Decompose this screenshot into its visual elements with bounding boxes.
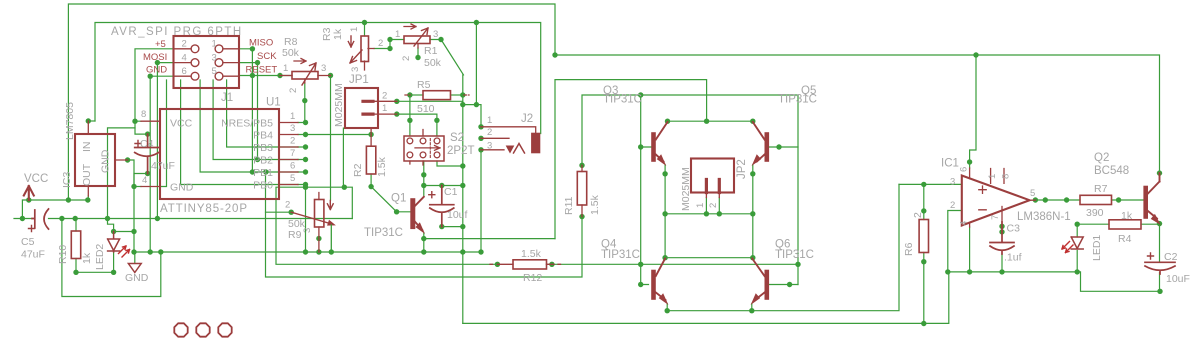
svg-text:2: 2: [487, 127, 492, 138]
wire IC1 pin6 supply jog: [970, 55, 976, 168]
wire IC1 pin3 input: [899, 183, 962, 185]
S2 arrow: [415, 146, 440, 151]
svg-text:3: 3: [212, 52, 217, 63]
wire R2 bottom lead: [370, 174, 372, 187]
wire J1 drop to PB0 row: [181, 80, 298, 185]
svg-text:Q1: Q1: [391, 193, 406, 205]
wire IC3 GND pin to node: [128, 160, 134, 187]
svg-text:RESET: RESET: [246, 65, 278, 76]
wire PB0 jog to R12 feed: [276, 187, 497, 264]
R1 wiper arrow: [414, 28, 428, 46]
led LED1: [1071, 237, 1083, 249]
S2 contact circles: [407, 138, 440, 158]
svg-text:PB3: PB3: [253, 142, 273, 154]
wire J1 +5 to U1 pin8: [135, 49, 174, 121]
wire J1 RESET to R8: [239, 75, 292, 77]
resistor R12: [513, 260, 547, 269]
transistor Q5: [764, 135, 769, 160]
svg-text:R2: R2: [352, 163, 364, 177]
U1 pin stubs: [141, 121, 298, 186]
LED1 arrows: [1062, 242, 1073, 253]
svg-text:VCC: VCC: [170, 118, 193, 130]
svg-text:3: 3: [350, 67, 361, 72]
wire E base drive right: [547, 263, 799, 265]
svg-text:M025MM: M025MM: [680, 167, 692, 211]
wire R4 right join: [1141, 223, 1160, 225]
wire green box around R9: [306, 128, 353, 218]
svg-text:BC548: BC548: [1094, 165, 1129, 177]
wire A hbridge top: [555, 80, 707, 239]
svg-text:4: 4: [182, 52, 187, 63]
svg-text:R12: R12: [523, 272, 542, 284]
resistor R4: [1109, 220, 1141, 229]
svg-text:1: 1: [382, 103, 387, 114]
svg-text:LED1: LED1: [1091, 235, 1103, 261]
C5 plus: [29, 226, 35, 232]
wire LED2 top jog: [108, 219, 135, 232]
svg-text:1.5k: 1.5k: [521, 248, 542, 260]
svg-text:2: 2: [401, 56, 412, 61]
svg-text:LM386N-1: LM386N-1: [1017, 211, 1071, 223]
switch S2 box: [404, 136, 444, 161]
svg-text:390: 390: [1086, 207, 1104, 219]
svg-text:8: 8: [1001, 174, 1012, 179]
resistor R7: [1080, 195, 1112, 204]
svg-text:510: 510: [417, 103, 435, 115]
wire R3 pin2 to R1: [374, 40, 404, 49]
svg-text:6: 6: [182, 66, 187, 77]
J1 pin lines: [174, 49, 240, 76]
wire J1 GND down: [150, 76, 173, 252]
wire F cross link: [665, 257, 753, 259]
transistor Q1: [410, 201, 415, 227]
svg-text:MISO: MISO: [249, 38, 273, 49]
svg-text:TIP31C: TIP31C: [775, 249, 814, 261]
svg-text:10uF: 10uF: [1166, 273, 1190, 285]
wire S2 mid bottom to Q1: [423, 161, 425, 175]
svg-text:3: 3: [302, 228, 313, 233]
led LED2: [108, 232, 120, 253]
wire B collectors top: [668, 120, 753, 122]
wire Q1 emitter down: [423, 233, 425, 253]
wire VCC branch down to rail: [108, 128, 136, 219]
wire PB3 to R11 bottom via y277: [266, 172, 583, 277]
wire Q5 emitter column: [752, 165, 754, 258]
C1 plus: [429, 192, 435, 198]
resistor R5: [423, 91, 451, 100]
wire GND symbol stem: [134, 252, 136, 263]
header JP2 box: [691, 159, 734, 193]
svg-text:JP1: JP1: [349, 74, 369, 86]
svg-text:6: 6: [290, 161, 295, 172]
wire R3 top to frame: [364, 23, 366, 37]
wire R5 left lead net: [411, 94, 423, 96]
capacitor C4: [135, 134, 159, 173]
connector J1 box: [174, 36, 240, 88]
wire JP1 pin2 to x463: [397, 100, 463, 102]
wire GND rail y252: [134, 251, 481, 253]
trimmer R3 body: [361, 36, 369, 62]
svg-text:J2: J2: [521, 113, 533, 125]
svg-text:4: 4: [142, 175, 147, 186]
wire PB4 to R3: [306, 134, 372, 136]
wire PB0 down to GND rail: [305, 185, 307, 253]
J1 pin circles: [191, 45, 223, 80]
R1 top arrow mark: [404, 24, 416, 29]
wire GND U-loop: [62, 219, 161, 297]
mounting holes: [174, 323, 187, 336]
wire frame2 top: [95, 23, 541, 134]
R9 down arrow: [327, 201, 333, 210]
svg-text:.1uf: .1uf: [1004, 252, 1022, 264]
svg-text:+5: +5: [155, 39, 166, 50]
wire C4 minus to GND node: [134, 174, 148, 187]
wire Q3 emitter column: [664, 165, 666, 258]
svg-text:2: 2: [288, 88, 299, 93]
wire R1 pin2 stub: [417, 48, 419, 58]
wire top frame VCC rail: [68, 4, 1159, 200]
resistor R11: [577, 172, 586, 206]
svg-text:4: 4: [959, 221, 970, 226]
svg-text:LM7805: LM7805: [64, 102, 76, 140]
wire C1 bottom jog: [442, 216, 463, 227]
wire rail1 y272: [948, 272, 1160, 291]
svg-text:47uF: 47uF: [21, 249, 45, 261]
wire rail H bottom: [463, 272, 949, 324]
transistor Q2: [1143, 188, 1148, 217]
wire J1 drop to U1 GND row: [160, 80, 167, 187]
wire S2 right bottom jog: [437, 161, 463, 166]
wire R8 pin3 down to R9: [330, 76, 332, 201]
svg-text:1: 1: [290, 111, 295, 122]
opamp IC1 triangle: [962, 176, 1030, 226]
wire base jogs right: [770, 147, 799, 285]
svg-text:1: 1: [212, 39, 217, 50]
ground symbol: [128, 264, 141, 273]
svg-text:3: 3: [433, 29, 438, 40]
IC1 pin7 stub: [1001, 207, 1003, 223]
svg-text:8: 8: [141, 109, 146, 120]
wire JP2 pin stubs: [706, 198, 719, 214]
svg-text:C5: C5: [21, 236, 35, 248]
JP1 pin bars: [363, 101, 373, 114]
R8 wiper arrow: [302, 63, 316, 85]
svg-text:R11: R11: [563, 196, 575, 215]
wire J2 pin1 jog: [463, 105, 481, 127]
wire R10 leads: [75, 219, 77, 273]
svg-text:R4: R4: [1118, 233, 1132, 245]
svg-text:GND: GND: [125, 272, 149, 284]
svg-text:7: 7: [990, 215, 1001, 220]
svg-text:PB1: PB1: [253, 167, 273, 179]
header JP1 box: [345, 88, 378, 128]
svg-text:2: 2: [950, 200, 955, 211]
svg-text:1.5k: 1.5k: [589, 194, 601, 215]
wire J1 MOSI down: [157, 63, 173, 219]
svg-text:1: 1: [695, 203, 706, 208]
transistor Q3: [651, 135, 656, 160]
wire VCC arrow stem: [28, 193, 30, 200]
wire S2 left top to R5: [409, 95, 411, 136]
svg-text:LED2: LED2: [94, 244, 106, 270]
wire IC1 pin5 out to R7: [1035, 199, 1080, 201]
svg-text:1: 1: [283, 63, 288, 74]
wire LED2 bottom y272: [76, 252, 114, 272]
wire J1 SCK to PB2: [239, 63, 258, 160]
svg-text:PB2: PB2: [253, 155, 273, 167]
svg-text:5: 5: [290, 173, 295, 184]
junction dots trimmer network: [362, 20, 367, 25]
svg-text:R9: R9: [288, 229, 302, 241]
svg-text:SCK: SCK: [257, 51, 277, 62]
wire Q4 emitter: [666, 304, 668, 311]
IC3 pins: [88, 121, 127, 196]
svg-text:TIP31C: TIP31C: [601, 249, 640, 261]
svg-text:2: 2: [290, 136, 295, 147]
svg-text:1: 1: [349, 27, 360, 32]
svg-text:2: 2: [285, 200, 290, 211]
junction dots H-bridge: [704, 119, 709, 124]
transistor Q4: [651, 272, 656, 298]
wire VCC to C4: [135, 121, 148, 134]
svg-text:C4: C4: [140, 138, 154, 150]
svg-text:GND: GND: [146, 65, 167, 76]
wire R5 right lead net: [451, 94, 463, 96]
wire R6 column: [923, 184, 925, 323]
svg-text:S2: S2: [450, 132, 464, 144]
wire x463 long vertical: [462, 75, 464, 324]
wire R1 pin3 diagonal: [430, 40, 464, 75]
svg-text:3: 3: [950, 177, 955, 188]
wire JP1 pin1 to S2: [397, 114, 437, 136]
wire base column left: [641, 95, 651, 285]
svg-text:IN: IN: [81, 142, 93, 153]
capacitor C1: [430, 186, 454, 227]
svg-text:R6: R6: [903, 242, 915, 256]
wire IC3 IN jog: [88, 120, 95, 122]
wire GND column x134: [133, 187, 135, 253]
wire C bases rail: [582, 95, 798, 285]
svg-text:ATTINY85-20P: ATTINY85-20P: [160, 203, 248, 215]
svg-text:50k: 50k: [424, 57, 442, 69]
R8 top arrow mark: [294, 59, 306, 64]
wire J1 drop to PB3 row: [227, 80, 298, 147]
svg-text:5: 5: [212, 66, 217, 77]
svg-text:TIP31C: TIP31C: [603, 94, 642, 106]
svg-text:7: 7: [290, 148, 295, 159]
svg-text:OUT: OUT: [81, 163, 93, 186]
svg-text:3: 3: [321, 63, 326, 74]
IC1 pins 1 8 stubs: [991, 169, 1004, 184]
svg-text:C2: C2: [1164, 251, 1178, 263]
svg-text:VCC: VCC: [24, 173, 48, 185]
svg-text:R5: R5: [417, 79, 431, 91]
wire R7 to Q2 base: [1112, 199, 1144, 201]
svg-text:3: 3: [487, 141, 492, 152]
R3 wiper arrow: [350, 50, 362, 63]
mcu U1 box: [160, 109, 279, 199]
resistor R2: [366, 146, 375, 174]
wire R4 left to LED1: [1077, 223, 1109, 225]
C2 plus: [1148, 253, 1154, 259]
JP2 pin bars: [706, 180, 719, 193]
wire y200 VCC node: [22, 196, 88, 219]
svg-text:6: 6: [959, 167, 970, 172]
svg-text:1.5k: 1.5k: [376, 156, 388, 177]
junction dots U1 pin column: [303, 120, 308, 125]
svg-text:GND: GND: [170, 182, 194, 194]
svg-text:1: 1: [487, 115, 492, 126]
svg-text:2: 2: [382, 91, 387, 102]
wire Q6 emitter: [751, 304, 753, 311]
svg-text:47uF: 47uF: [151, 160, 175, 172]
R3 down arrow: [348, 36, 353, 47]
wire IC1 pin2 down: [948, 211, 962, 272]
S2 pin stubs: [410, 130, 423, 166]
wire J1 drop to PB2 row: [213, 80, 298, 160]
svg-text:3: 3: [290, 123, 295, 134]
svg-text:10uf: 10uf: [447, 209, 468, 221]
svg-text:PB4: PB4: [253, 130, 273, 142]
wire Q1 emitter y239: [424, 238, 555, 240]
VCC arrow: [24, 186, 34, 200]
svg-text:Q2: Q2: [1094, 152, 1109, 164]
regulator IC3 box: [75, 134, 115, 186]
svg-text:MOSI: MOSI: [143, 52, 167, 63]
svg-text:U1: U1: [266, 97, 281, 109]
svg-text:5: 5: [1030, 188, 1035, 199]
svg-text:J1: J1: [221, 92, 233, 104]
trimmer R1 body: [404, 36, 430, 44]
wire C1 top link: [424, 185, 463, 187]
svg-text:1: 1: [987, 174, 998, 179]
wire IC1 pin4 down: [969, 227, 971, 272]
svg-text:M025MM: M025MM: [333, 83, 345, 127]
wire J2 pin3 down: [480, 150, 482, 252]
svg-text:1: 1: [395, 29, 400, 40]
svg-text:2: 2: [708, 203, 719, 208]
svg-text:1k: 1k: [332, 28, 344, 40]
capacitor C2: [1145, 262, 1175, 274]
resistor R10: [71, 231, 80, 259]
wire left rail y218.5: [14, 212, 352, 218]
svg-text:2: 2: [378, 38, 383, 49]
resistor R6: [919, 220, 928, 253]
capacitor C5: [32, 209, 49, 229]
svg-text:R1: R1: [424, 45, 438, 57]
svg-text:GND: GND: [100, 149, 112, 173]
svg-text:JP2: JP2: [736, 159, 748, 179]
wire R2 diag to Q1 base: [371, 187, 410, 212]
svg-text:IC1: IC1: [941, 158, 959, 170]
R9 wiper arrow: [291, 212, 331, 224]
svg-text:AVR_SPI PRG 6PTH: AVR_SPI PRG 6PTH: [111, 26, 243, 38]
svg-text:TIP31C: TIP31C: [778, 94, 817, 106]
wire J1 MISO to PB1: [239, 49, 252, 172]
trimmer R9 body: [315, 200, 324, 228]
junction dots power/regulator area: [86, 118, 91, 123]
svg-text:NRES/PB5: NRES/PB5: [221, 118, 273, 130]
svg-text:C1: C1: [444, 186, 458, 198]
wire Q2 emitter to C2: [1159, 224, 1161, 292]
wire C3 bottom: [1001, 254, 1003, 272]
wire R8 wiper to U1 pin1: [298, 83, 306, 123]
wire G emitters rail to IC1: [667, 184, 899, 310]
wire Q1 collector up: [423, 175, 425, 196]
IC1 plus minus: [979, 186, 986, 210]
wire U1 right pin joins: [298, 135, 306, 185]
svg-text:1k: 1k: [81, 252, 93, 264]
connector J2: [532, 134, 540, 153]
capacitor C3: [990, 222, 1014, 254]
junction dots amplifier area: [973, 52, 978, 57]
svg-text:IC3: IC3: [61, 172, 73, 189]
wire D motor terminal left: [665, 213, 753, 215]
svg-text:1k: 1k: [1121, 210, 1133, 222]
wire U1 pin4 stub: [134, 186, 141, 188]
svg-text:2: 2: [912, 212, 924, 218]
svg-text:2: 2: [182, 39, 187, 50]
svg-text:R10: R10: [57, 245, 69, 264]
junction dots J1 header nets: [155, 60, 160, 65]
S2 dashed link: [429, 139, 431, 159]
svg-text:TIP31C: TIP31C: [364, 227, 403, 239]
C4 plus: [135, 141, 141, 147]
svg-text:C3: C3: [1007, 223, 1021, 235]
transistor Q6: [764, 272, 769, 298]
IC1 pin4 pin6 stubs: [970, 168, 1036, 227]
svg-text:PB0: PB0: [253, 180, 273, 192]
svg-text:R7: R7: [1094, 183, 1108, 195]
wire LED1 leads: [1076, 224, 1078, 272]
J2 switch contact: [514, 144, 525, 154]
LED2 arrows: [119, 246, 130, 257]
svg-text:2P2T: 2P2T: [447, 145, 475, 157]
wire J1 drop to PB1 row: [200, 80, 298, 172]
svg-text:50k: 50k: [282, 47, 300, 59]
resistor R8: [292, 72, 318, 80]
